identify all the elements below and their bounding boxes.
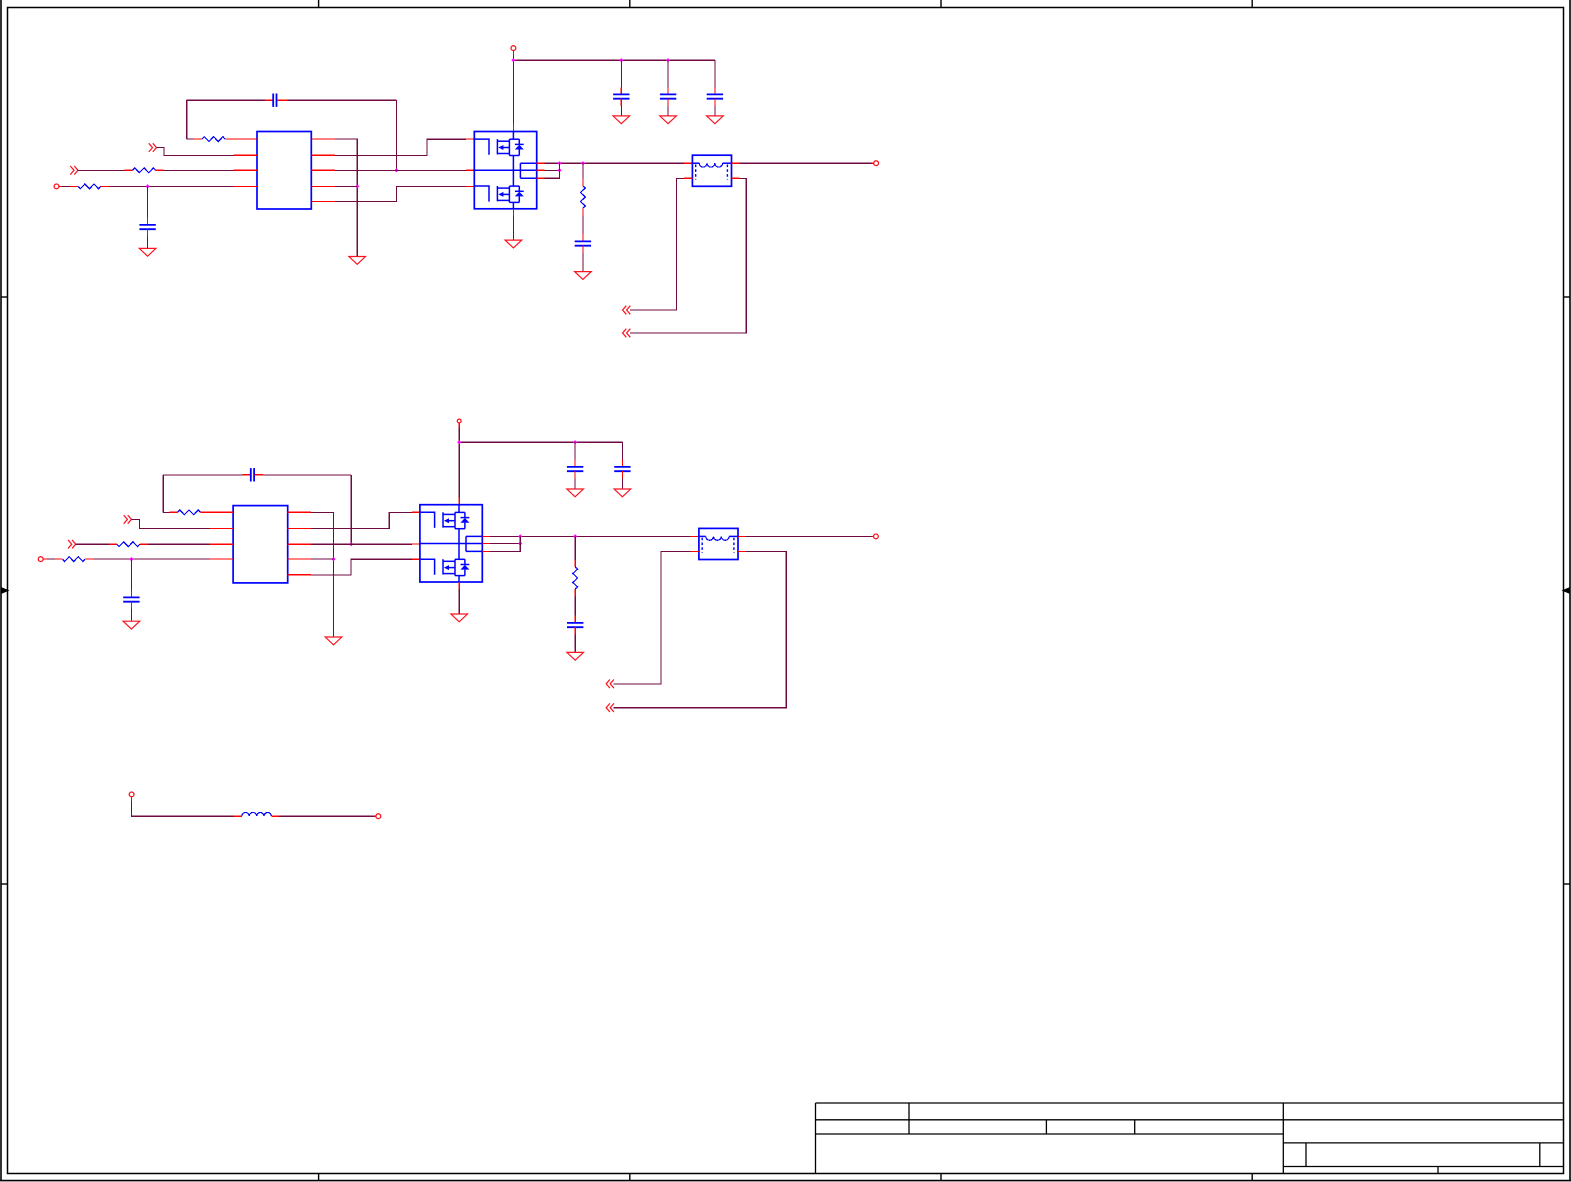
wire: [746, 535, 874, 537]
wire: [582, 246, 584, 272]
node PHASE_B wire: [490, 535, 690, 537]
capacitor C9: [567, 467, 583, 471]
port P1: [149, 143, 157, 152]
junction: [394, 168, 398, 172]
wire: [109, 185, 233, 187]
ground: [325, 637, 342, 645]
wire: [667, 60, 669, 94]
junction: [581, 161, 585, 165]
junction: [331, 557, 335, 561]
pin stub R3: [70, 185, 78, 187]
wire: [132, 797, 234, 817]
wire: [76, 543, 109, 545]
ground: [139, 248, 156, 256]
junction: [666, 58, 670, 62]
wire: [490, 536, 520, 551]
capacitor C5: [660, 94, 676, 98]
pin stub T2: [690, 535, 699, 537]
wire: [395, 100, 397, 170]
pin stubs U1: [233, 139, 334, 201]
wire: [621, 442, 623, 467]
ground: [614, 489, 631, 497]
resistor R4: [581, 186, 586, 208]
pin stub C1: [277, 99, 287, 101]
port P8: [606, 703, 614, 712]
wire: [130, 602, 132, 622]
pin stub T1: [684, 162, 693, 164]
wire: [714, 99, 716, 116]
junction: [573, 440, 577, 444]
junction: [573, 534, 577, 538]
wire: [335, 169, 466, 171]
junction: [619, 58, 623, 62]
ground: [707, 116, 724, 124]
pin stubs T1: [684, 163, 740, 178]
pin stub R2: [125, 169, 133, 171]
wire: [311, 558, 334, 560]
pin stubs Q1: [513, 163, 544, 216]
wire: [157, 148, 234, 156]
pin stub R3: [101, 185, 110, 187]
wire: [164, 169, 234, 171]
wire: [335, 185, 357, 187]
capacitor C2: [139, 225, 155, 229]
wire: [630, 178, 746, 333]
input terminal J2: [54, 184, 59, 189]
transformer T2: [699, 528, 738, 559]
wire: [574, 442, 576, 467]
ground: [349, 257, 366, 265]
power terminal J1: [511, 46, 516, 51]
capacitor C8: [123, 597, 139, 601]
resistor R8: [573, 567, 578, 589]
junction: [557, 161, 561, 165]
wire: [335, 139, 466, 155]
resistor R7: [63, 557, 86, 562]
pin stub R7: [55, 558, 63, 560]
capacitor C11: [567, 623, 583, 627]
wire: [574, 627, 576, 652]
ground: [660, 116, 677, 124]
pin stubs U2: [210, 512, 311, 575]
ground: [451, 614, 468, 622]
wire: [740, 162, 875, 164]
wire: [148, 543, 210, 545]
junction: [518, 541, 522, 545]
wire: [147, 186, 149, 225]
wire: [574, 589, 576, 623]
wire: [78, 169, 125, 171]
dual MOSFET Q1 internals: [474, 132, 536, 209]
ground: [123, 621, 140, 629]
wire: [621, 471, 623, 489]
wire: [263, 474, 351, 476]
junction: [511, 58, 515, 62]
wire: [187, 99, 265, 101]
pin stubs R1: [194, 138, 234, 140]
junction: [146, 184, 150, 188]
wire: [574, 471, 576, 489]
pin stub R7: [85, 558, 93, 560]
pin stub C1: [265, 99, 273, 101]
wire: [582, 163, 584, 186]
port P2: [70, 166, 78, 175]
capacitor C6: [707, 94, 723, 98]
ground: [567, 489, 584, 497]
IC U2: [233, 506, 288, 583]
capacitor C1: [273, 94, 276, 107]
capacitor C3: [575, 241, 591, 245]
junction: [557, 168, 561, 172]
ground: [613, 116, 630, 124]
node VDRV_B rail: [459, 441, 622, 443]
wire: [574, 536, 576, 567]
border centering arrows: [2, 587, 1570, 593]
pin stub R6: [140, 543, 148, 545]
output terminal J3: [874, 161, 879, 166]
pin stubs R5: [170, 511, 210, 513]
wire: [667, 99, 669, 116]
wire: [512, 216, 514, 240]
wire: [512, 50, 514, 131]
wire: [163, 511, 169, 513]
wire: [350, 475, 352, 544]
wire: [187, 138, 194, 140]
IC U1: [257, 132, 311, 210]
ground: [575, 272, 592, 280]
pin stubs T2: [690, 536, 746, 551]
wire: [287, 99, 396, 101]
wire: [613, 552, 786, 708]
pin stub C7: [243, 474, 251, 476]
wire feedback left: [186, 100, 188, 139]
wire: [582, 208, 584, 241]
resistor R3: [78, 184, 101, 189]
capacitor C7: [251, 468, 254, 481]
capacitor C10: [614, 467, 630, 471]
resistor R6: [117, 542, 140, 547]
wire feedback left: [162, 475, 164, 513]
wire: [458, 423, 460, 505]
wire: [311, 559, 412, 575]
title block: [816, 1103, 1564, 1174]
junction: [355, 184, 359, 188]
dual MOSFET Q1 body: [474, 132, 536, 209]
pin stub J5: [43, 558, 47, 560]
junction: [129, 557, 133, 561]
wire: [279, 815, 376, 817]
junction: [349, 542, 353, 546]
pin stub R2: [156, 169, 164, 171]
wire: [311, 512, 412, 528]
terminal J8: [376, 814, 381, 819]
ground: [505, 240, 522, 248]
pin stub L1: [271, 815, 279, 817]
wire: [93, 558, 209, 560]
wire: [714, 60, 716, 94]
wire: [620, 99, 622, 116]
port P7: [606, 680, 614, 689]
terminal J7: [129, 792, 134, 797]
dual MOSFET Q2 body: [420, 505, 482, 582]
resistor R1: [202, 137, 225, 142]
wire: [130, 559, 132, 597]
port P4: [623, 329, 631, 338]
junction: [457, 440, 461, 444]
port P3: [623, 306, 631, 315]
pin stubs Q2 gates: [412, 512, 420, 559]
capacitor C4: [613, 94, 629, 98]
pin stub C7: [255, 474, 263, 476]
wire: [545, 163, 560, 178]
wire: [311, 512, 334, 637]
pin stub L1: [234, 815, 242, 817]
resistor R5: [178, 510, 201, 515]
wire: [47, 558, 55, 560]
output terminal J6: [874, 534, 879, 539]
wire: [630, 178, 684, 310]
ground: [567, 652, 584, 660]
wire: [490, 543, 520, 545]
node PHASE_A wire: [545, 162, 684, 164]
pin stub J2: [59, 185, 62, 187]
wire: [545, 169, 560, 171]
wire: [131, 519, 209, 528]
wire: [62, 185, 70, 187]
wire: [163, 474, 242, 476]
wire: [147, 229, 149, 248]
power terminal J4: [457, 419, 461, 423]
wire: [335, 139, 357, 256]
dual MOSFET Q2 internals: [420, 505, 482, 582]
port P6: [68, 540, 76, 549]
input terminal J5: [38, 557, 43, 562]
wire: [613, 552, 690, 684]
wire: [458, 589, 460, 614]
wire: [335, 186, 466, 201]
transformer T1: [692, 155, 731, 186]
wire: [620, 60, 622, 94]
pin stub R6: [109, 543, 117, 545]
port P5: [124, 515, 132, 524]
pin stubs Q2: [459, 536, 490, 589]
pin stubs Q1 gates: [466, 139, 474, 186]
resistor R2: [133, 168, 156, 173]
inductor L1: [242, 812, 272, 816]
wire: [311, 543, 412, 545]
junction: [518, 534, 522, 538]
node VDRV_A rail: [513, 59, 715, 61]
